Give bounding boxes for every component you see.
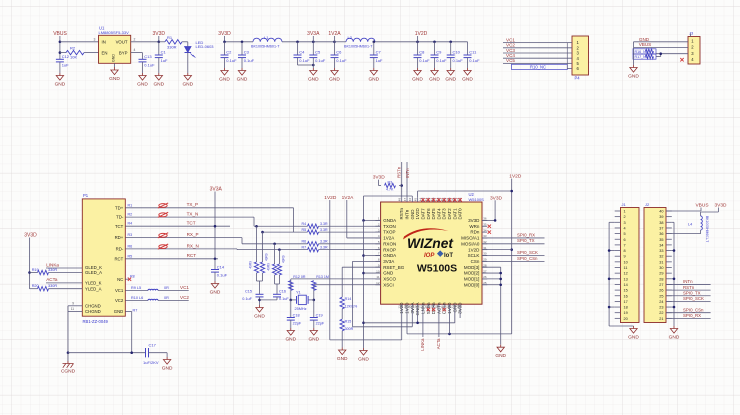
wire R17 to J3 pin3	[656, 56, 661, 58]
svg-text:IN: IN	[102, 40, 106, 45]
wire MISO SPI0_RX	[482, 237, 545, 239]
svg-text:49R9: 49R9	[265, 253, 269, 261]
wire J1 gnd rail	[609, 221, 615, 223]
svg-text:GND: GND	[210, 289, 221, 295]
svg-text:CGND: CGND	[61, 369, 76, 375]
no-connect WRn	[488, 225, 491, 228]
capacitor C17	[145, 348, 147, 357]
resistor R13	[312, 281, 316, 291]
svg-text:C5: C5	[315, 50, 321, 55]
no-connect NC pin R8	[125, 278, 129, 280]
svg-text:CSn: CSn	[471, 259, 480, 264]
svg-text:L4: L4	[688, 223, 692, 227]
wire VBUS to J2 pin40	[700, 208, 702, 212]
svg-text:3.3R: 3.3R	[320, 240, 328, 244]
svg-text:IoT: IoT	[444, 253, 453, 259]
svg-text:C19: C19	[316, 313, 323, 317]
svg-text:11: 11	[71, 307, 75, 311]
svg-text:RD-: RD-	[116, 247, 124, 252]
svg-text:19: 19	[624, 311, 628, 315]
ground below C10	[447, 68, 454, 75]
wire termination RX common	[275, 283, 280, 285]
svg-text:46: 46	[408, 198, 412, 202]
svg-text:R19: R19	[32, 268, 39, 272]
node J3 junction	[659, 52, 662, 55]
svg-text:RD+: RD+	[115, 235, 124, 240]
svg-text:GND: GND	[669, 334, 680, 340]
capacitor C2	[224, 42, 226, 55]
svg-text:C3: C3	[244, 50, 250, 55]
svg-text:GND: GND	[308, 336, 319, 342]
resistor R1	[159, 41, 165, 43]
wire XSCI	[314, 284, 381, 286]
wire RSTn J2	[666, 289, 711, 291]
wire C4 C5 common	[298, 64, 314, 66]
svg-text:3V3A: 3V3A	[210, 187, 223, 193]
svg-text:330R: 330R	[48, 268, 57, 272]
svg-text:22pF: 22pF	[316, 322, 325, 326]
svg-text:R1: R1	[167, 35, 173, 40]
wire TCT	[125, 225, 230, 227]
svg-text:WIZnet: WIZnet	[407, 236, 454, 251]
resistor R3	[379, 185, 382, 187]
svg-text:W5100S: W5100S	[417, 263, 457, 275]
svg-text:C13: C13	[144, 54, 152, 59]
svg-text:MOSI/A0: MOSI/A0	[461, 241, 480, 246]
wire TD+ TX_P	[125, 207, 293, 209]
svg-text:2: 2	[134, 37, 136, 41]
svg-text:R2: R2	[70, 45, 76, 50]
svg-text:INTn: INTn	[405, 168, 410, 178]
wire L2 to 1V2D rail	[375, 41, 468, 43]
svg-text:22: 22	[659, 311, 663, 315]
svg-text:45: 45	[413, 198, 417, 202]
svg-text:13: 13	[398, 305, 402, 309]
svg-text:C14: C14	[217, 264, 225, 269]
capacitor C10	[450, 42, 452, 55]
wire SPI0_CSn J2	[666, 312, 711, 314]
ground below C9	[431, 68, 438, 75]
wire SPI0_SCK J2	[666, 300, 711, 302]
svg-text:3V3A: 3V3A	[383, 259, 394, 264]
svg-text:GND: GND	[329, 76, 340, 82]
svg-text:P1: P1	[83, 193, 89, 198]
wire CHGND pins	[76, 305, 83, 307]
svg-text:VC1: VC1	[115, 288, 124, 293]
svg-text:GND: GND	[137, 81, 148, 87]
svg-text:3V3D: 3V3D	[468, 218, 480, 223]
svg-text:GND: GND	[114, 309, 124, 314]
ferrite bead L4	[701, 216, 703, 230]
svg-text:EN: EN	[102, 50, 108, 55]
svg-text:1V2A: 1V2A	[342, 195, 355, 201]
svg-text:C7: C7	[376, 50, 382, 55]
svg-text:RXON: RXON	[383, 241, 396, 246]
svg-text:C17: C17	[149, 343, 157, 348]
svg-text:GND: GND	[429, 76, 440, 82]
svg-text:GLED_A: GLED_A	[85, 270, 102, 275]
svg-text:DAT1: DAT1	[452, 208, 457, 220]
svg-text:TX_N: TX_N	[187, 212, 199, 217]
wire 1V2D bottom pin 10	[449, 308, 451, 334]
svg-text:R7: R7	[133, 309, 138, 313]
capacitor C9	[434, 42, 436, 55]
svg-text:TX_P: TX_P	[187, 202, 199, 207]
svg-text:R10_NC: R10_NC	[530, 65, 546, 70]
svg-text:36: 36	[659, 232, 663, 236]
resistor R15	[340, 319, 344, 331]
svg-text:R20: R20	[32, 284, 39, 288]
svg-text:10: 10	[624, 260, 628, 264]
net label box R10_NC	[512, 64, 568, 69]
svg-text:49R9: 49R9	[249, 261, 253, 269]
capacitor C13	[142, 53, 144, 60]
regulator U1	[99, 35, 131, 63]
resistor R20	[30, 288, 38, 290]
svg-text:24: 24	[456, 305, 460, 309]
svg-text:1V2D: 1V2D	[415, 31, 428, 37]
svg-text:C12: C12	[62, 54, 70, 59]
capacitor C3	[241, 42, 243, 55]
capacitor C18	[290, 300, 292, 318]
svg-text:GND: GND	[162, 365, 173, 371]
svg-text:SPI0_CSn: SPI0_CSn	[517, 256, 538, 261]
svg-text:8: 8	[624, 249, 626, 253]
connector J1	[621, 208, 640, 323]
wire SPI0_TX J2	[666, 295, 711, 297]
svg-text:R6: R6	[302, 240, 307, 244]
svg-text:RXOP: RXOP	[383, 247, 396, 252]
svg-text:17: 17	[624, 300, 628, 304]
no-connect DAT pins	[421, 198, 424, 201]
capacitor C4	[297, 42, 299, 55]
svg-text:0.1uF: 0.1uF	[144, 62, 155, 67]
svg-text:C8: C8	[419, 50, 425, 55]
svg-text:0.1uF: 0.1uF	[453, 58, 464, 63]
svg-text:30: 30	[659, 266, 663, 270]
svg-text:47: 47	[403, 198, 407, 202]
wire R10_NC to P4 pin6	[567, 68, 572, 70]
connector J3	[688, 37, 700, 65]
wire C15 C16 common	[260, 299, 278, 301]
wire 3V3A chip route	[353, 260, 381, 262]
svg-text:21: 21	[659, 317, 663, 321]
svg-text:GNDA: GNDA	[383, 253, 396, 258]
wire RD+ RX_P	[125, 237, 242, 239]
ground below C6	[331, 68, 338, 75]
svg-text:3: 3	[94, 37, 96, 41]
svg-text:300R: 300R	[345, 327, 354, 331]
svg-text:13: 13	[624, 277, 628, 281]
inductor R9 L5 on VC1	[125, 290, 148, 292]
wire RX_P drop	[241, 238, 243, 244]
svg-text:4: 4	[134, 48, 136, 52]
wire VBUS to U1 IN	[60, 41, 99, 43]
svg-text:18: 18	[424, 305, 428, 309]
wires VC1-VC5 to P4	[503, 42, 572, 44]
svg-text:C10: C10	[453, 50, 461, 55]
wire TXOP row	[263, 231, 308, 233]
svg-text:C9: C9	[436, 50, 442, 55]
svg-text:C15: C15	[245, 290, 252, 294]
wire GND stub	[364, 272, 381, 274]
svg-text:ACTa: ACTa	[436, 338, 441, 349]
wire CSn SPI0_CSn	[482, 260, 545, 262]
svg-text:R12 0R: R12 0R	[293, 275, 306, 279]
svg-text:BK1005HM601-T: BK1005HM601-T	[344, 44, 373, 48]
svg-text:37: 37	[659, 226, 663, 230]
svg-text:VC1: VC1	[180, 285, 189, 290]
svg-text:7: 7	[624, 243, 626, 247]
svg-text:4: 4	[624, 226, 626, 230]
LED1 power LED	[187, 42, 189, 47]
svg-text:GND: GND	[237, 76, 248, 82]
capacitor C11	[467, 42, 469, 55]
svg-text:0.1uF: 0.1uF	[299, 58, 310, 63]
ground below J2	[670, 326, 677, 333]
chassis ground CGND	[63, 361, 74, 368]
svg-text:1: 1	[624, 210, 626, 214]
resistor R18 termination	[278, 250, 280, 264]
svg-text:10K: 10K	[70, 55, 77, 60]
svg-text:C2: C2	[226, 50, 232, 55]
ground below C13	[139, 73, 146, 80]
svg-text:TCT: TCT	[187, 221, 196, 226]
svg-text:3V3D: 3V3D	[373, 175, 386, 181]
svg-text:VC5: VC5	[506, 58, 515, 63]
svg-text:RDn: RDn	[470, 230, 479, 235]
svg-text:C16: C16	[279, 290, 286, 294]
wire 3V3D to L4	[717, 208, 719, 213]
svg-text:LINKa: LINKa	[46, 262, 59, 267]
svg-text:CHGND: CHGND	[85, 309, 101, 314]
svg-text:MOD[1]: MOD[1]	[464, 277, 480, 282]
svg-text:VC2: VC2	[115, 298, 124, 303]
crystal Y1	[290, 299, 293, 302]
node RCT junction	[214, 258, 217, 261]
svg-text:RCT: RCT	[187, 253, 197, 258]
ground below C2	[221, 68, 228, 75]
svg-text:RB1-ZZ-0049: RB1-ZZ-0049	[83, 319, 109, 324]
capacitor C16	[273, 293, 281, 295]
svg-text:DAT3: DAT3	[442, 208, 447, 220]
svg-text:LINKa: LINKa	[420, 338, 425, 351]
svg-text:R9 L5: R9 L5	[131, 286, 141, 290]
wire RXON row	[242, 243, 308, 245]
wire 3V3D to chip	[494, 200, 496, 220]
svg-text:LM8805SF5-33V: LM8805SF5-33V	[99, 30, 130, 35]
svg-text:9: 9	[624, 255, 626, 259]
svg-text:SPI0_TX: SPI0_TX	[517, 238, 535, 243]
svg-text:0.1uF: 0.1uF	[226, 58, 237, 63]
capacitor C8	[417, 42, 419, 55]
svg-text:TD-: TD-	[116, 215, 124, 220]
ground below C18	[287, 328, 294, 335]
svg-text:39: 39	[659, 215, 663, 219]
svg-text:RSTn: RSTn	[683, 285, 695, 290]
wire chassis rail	[68, 352, 146, 354]
wire ACTn	[438, 308, 440, 337]
svg-text:VBUS: VBUS	[53, 31, 67, 37]
svg-text:34: 34	[483, 228, 487, 232]
svg-text:27: 27	[659, 283, 663, 287]
svg-text:W5100S: W5100S	[469, 197, 485, 202]
wire GNDA bottom	[417, 308, 419, 323]
svg-text:3.3R: 3.3R	[320, 222, 328, 226]
node RXOP term	[278, 248, 281, 251]
node EN junction	[59, 51, 62, 54]
svg-text:XSCO: XSCO	[383, 277, 396, 282]
resistor R7 series RXOP	[308, 247, 319, 251]
capacitor C6	[334, 42, 336, 55]
wire RXOP row	[237, 249, 308, 251]
svg-text:GND: GND	[358, 356, 369, 362]
svg-text:0.1uF: 0.1uF	[469, 58, 480, 63]
svg-text:1uF: 1uF	[161, 58, 168, 63]
wire 3V3D vertical	[158, 36, 160, 42]
wire GND bottom rail	[364, 322, 455, 324]
ground chip GND rail	[360, 348, 367, 355]
svg-text:28: 28	[659, 277, 663, 281]
svg-text:0R: 0R	[164, 296, 169, 300]
diff marker TX_P	[159, 204, 167, 208]
svg-text:TD+: TD+	[115, 205, 124, 210]
svg-text:RSET_BG: RSET_BG	[383, 265, 405, 270]
ground below C19	[310, 328, 317, 335]
wire 1V2D rail right	[511, 179, 513, 334]
svg-text:VC2: VC2	[180, 295, 189, 300]
svg-text:R14: R14	[345, 297, 352, 301]
svg-text:MISO/A1: MISO/A1	[461, 236, 480, 241]
svg-text:35: 35	[659, 238, 663, 242]
wire P4 stub column	[566, 43, 568, 69]
svg-text:29: 29	[659, 272, 663, 276]
wire termination TX common	[257, 280, 263, 282]
svg-text:25MHz: 25MHz	[295, 307, 307, 311]
wire 1V2A to chip	[346, 200, 348, 238]
svg-text:RX_N: RX_N	[187, 243, 199, 248]
svg-text:R3: R3	[388, 180, 393, 184]
svg-text:31: 31	[659, 260, 663, 264]
svg-text:DAT7: DAT7	[420, 208, 425, 220]
node TCT junction	[214, 225, 217, 228]
svg-text:VOUT: VOUT	[116, 40, 128, 45]
svg-text:GNDA: GNDA	[383, 218, 396, 223]
svg-text:3.3R: 3.3R	[320, 246, 328, 250]
resistor R5 series TXOP	[308, 230, 319, 234]
svg-text:1V2D: 1V2D	[324, 195, 337, 201]
capacitor C5	[312, 42, 314, 55]
svg-text:0.1uF: 0.1uF	[419, 58, 430, 63]
svg-text:25: 25	[659, 294, 663, 298]
wire GNDA2 stub	[364, 255, 381, 257]
svg-text:R5: R5	[128, 254, 133, 258]
svg-text:SPI0_SCK: SPI0_SCK	[683, 296, 704, 301]
svg-text:TXOP: TXOP	[383, 230, 395, 235]
ground below J3 resistors	[630, 65, 637, 72]
svg-text:2: 2	[624, 215, 626, 219]
svg-text:1V2A: 1V2A	[383, 236, 394, 241]
svg-text:TCT: TCT	[115, 224, 124, 229]
svg-text:RSTn: RSTn	[399, 208, 404, 220]
wire 3V3A vertical rail	[214, 192, 216, 259]
svg-text:0.1uF: 0.1uF	[315, 58, 326, 63]
svg-text:CHGND: CHGND	[85, 303, 101, 308]
svg-text:YLED_A: YLED_A	[85, 286, 102, 291]
svg-text:34: 34	[659, 243, 663, 247]
wire YLED_K	[46, 282, 82, 284]
svg-text:SPI0_RX: SPI0_RX	[683, 313, 701, 318]
svg-text:C11: C11	[469, 50, 477, 55]
svg-text:Y1: Y1	[296, 291, 301, 295]
wire TD- TX_N	[125, 216, 254, 218]
svg-text:SPI0_TX: SPI0_TX	[683, 290, 701, 295]
resistor R4 series TXON	[308, 224, 319, 228]
svg-text:GND: GND	[462, 76, 473, 82]
svg-text:32: 32	[659, 255, 663, 259]
wire 1V2D left rail	[329, 200, 331, 340]
svg-text:33: 33	[659, 249, 663, 253]
svg-text:DAT2: DAT2	[447, 208, 452, 220]
svg-text:14: 14	[403, 305, 407, 309]
svg-text:35: 35	[483, 222, 487, 226]
svg-text:38: 38	[659, 221, 663, 225]
wire to GND right of C17	[166, 353, 168, 357]
svg-text:DAT0: DAT0	[458, 208, 463, 220]
svg-text:SPI0_SCK: SPI0_SCK	[517, 250, 538, 255]
svg-text:BK1005HM601-T: BK1005HM601-T	[705, 216, 709, 242]
svg-text:40: 40	[659, 210, 663, 214]
svg-text:3V3D: 3V3D	[24, 233, 37, 239]
svg-text:1V2D: 1V2D	[468, 247, 480, 252]
wire TXON row	[254, 225, 308, 227]
wire SCLK SPI0_SCK	[482, 255, 545, 257]
svg-text:GND: GND	[495, 353, 506, 359]
node 3V3D junction	[158, 41, 161, 44]
svg-text:0.1uF: 0.1uF	[336, 58, 347, 63]
svg-text:R7: R7	[302, 246, 307, 250]
svg-text:R5: R5	[302, 228, 307, 232]
wire U1 GND pin to ground	[114, 63, 116, 67]
svg-text:DAT4: DAT4	[436, 208, 441, 220]
resistor R17 NC box	[633, 54, 656, 59]
svg-text:0.1uF: 0.1uF	[217, 273, 228, 278]
connector J2	[644, 208, 666, 323]
wire RSET_BG	[342, 266, 380, 268]
svg-text:30: 30	[483, 252, 487, 256]
svg-text:R4: R4	[128, 222, 133, 226]
svg-text:26: 26	[659, 289, 663, 293]
wire GND to J3 pin1	[634, 41, 689, 43]
svg-text:GND: GND	[412, 76, 423, 82]
ground below LED	[184, 73, 191, 80]
svg-text:SPI0_CSn: SPI0_CSn	[683, 307, 704, 312]
ground below C12	[56, 73, 63, 80]
svg-text:R3: R3	[128, 233, 133, 237]
wire TX_P drop	[293, 208, 295, 232]
svg-text:49R9: 49R9	[267, 263, 271, 271]
svg-text:R6: R6	[128, 244, 133, 248]
svg-text:GND: GND	[182, 81, 193, 87]
svg-text:IOP: IOP	[424, 253, 435, 259]
svg-text:1uF: 1uF	[62, 62, 69, 67]
wire MOD bus	[482, 266, 501, 268]
svg-text:RCT: RCT	[114, 256, 123, 261]
node TXOP term	[261, 231, 264, 234]
wire J2 gnd rail	[672, 221, 674, 223]
svg-text:YLED_K: YLED_K	[85, 281, 102, 286]
capacitor C7	[373, 42, 375, 55]
